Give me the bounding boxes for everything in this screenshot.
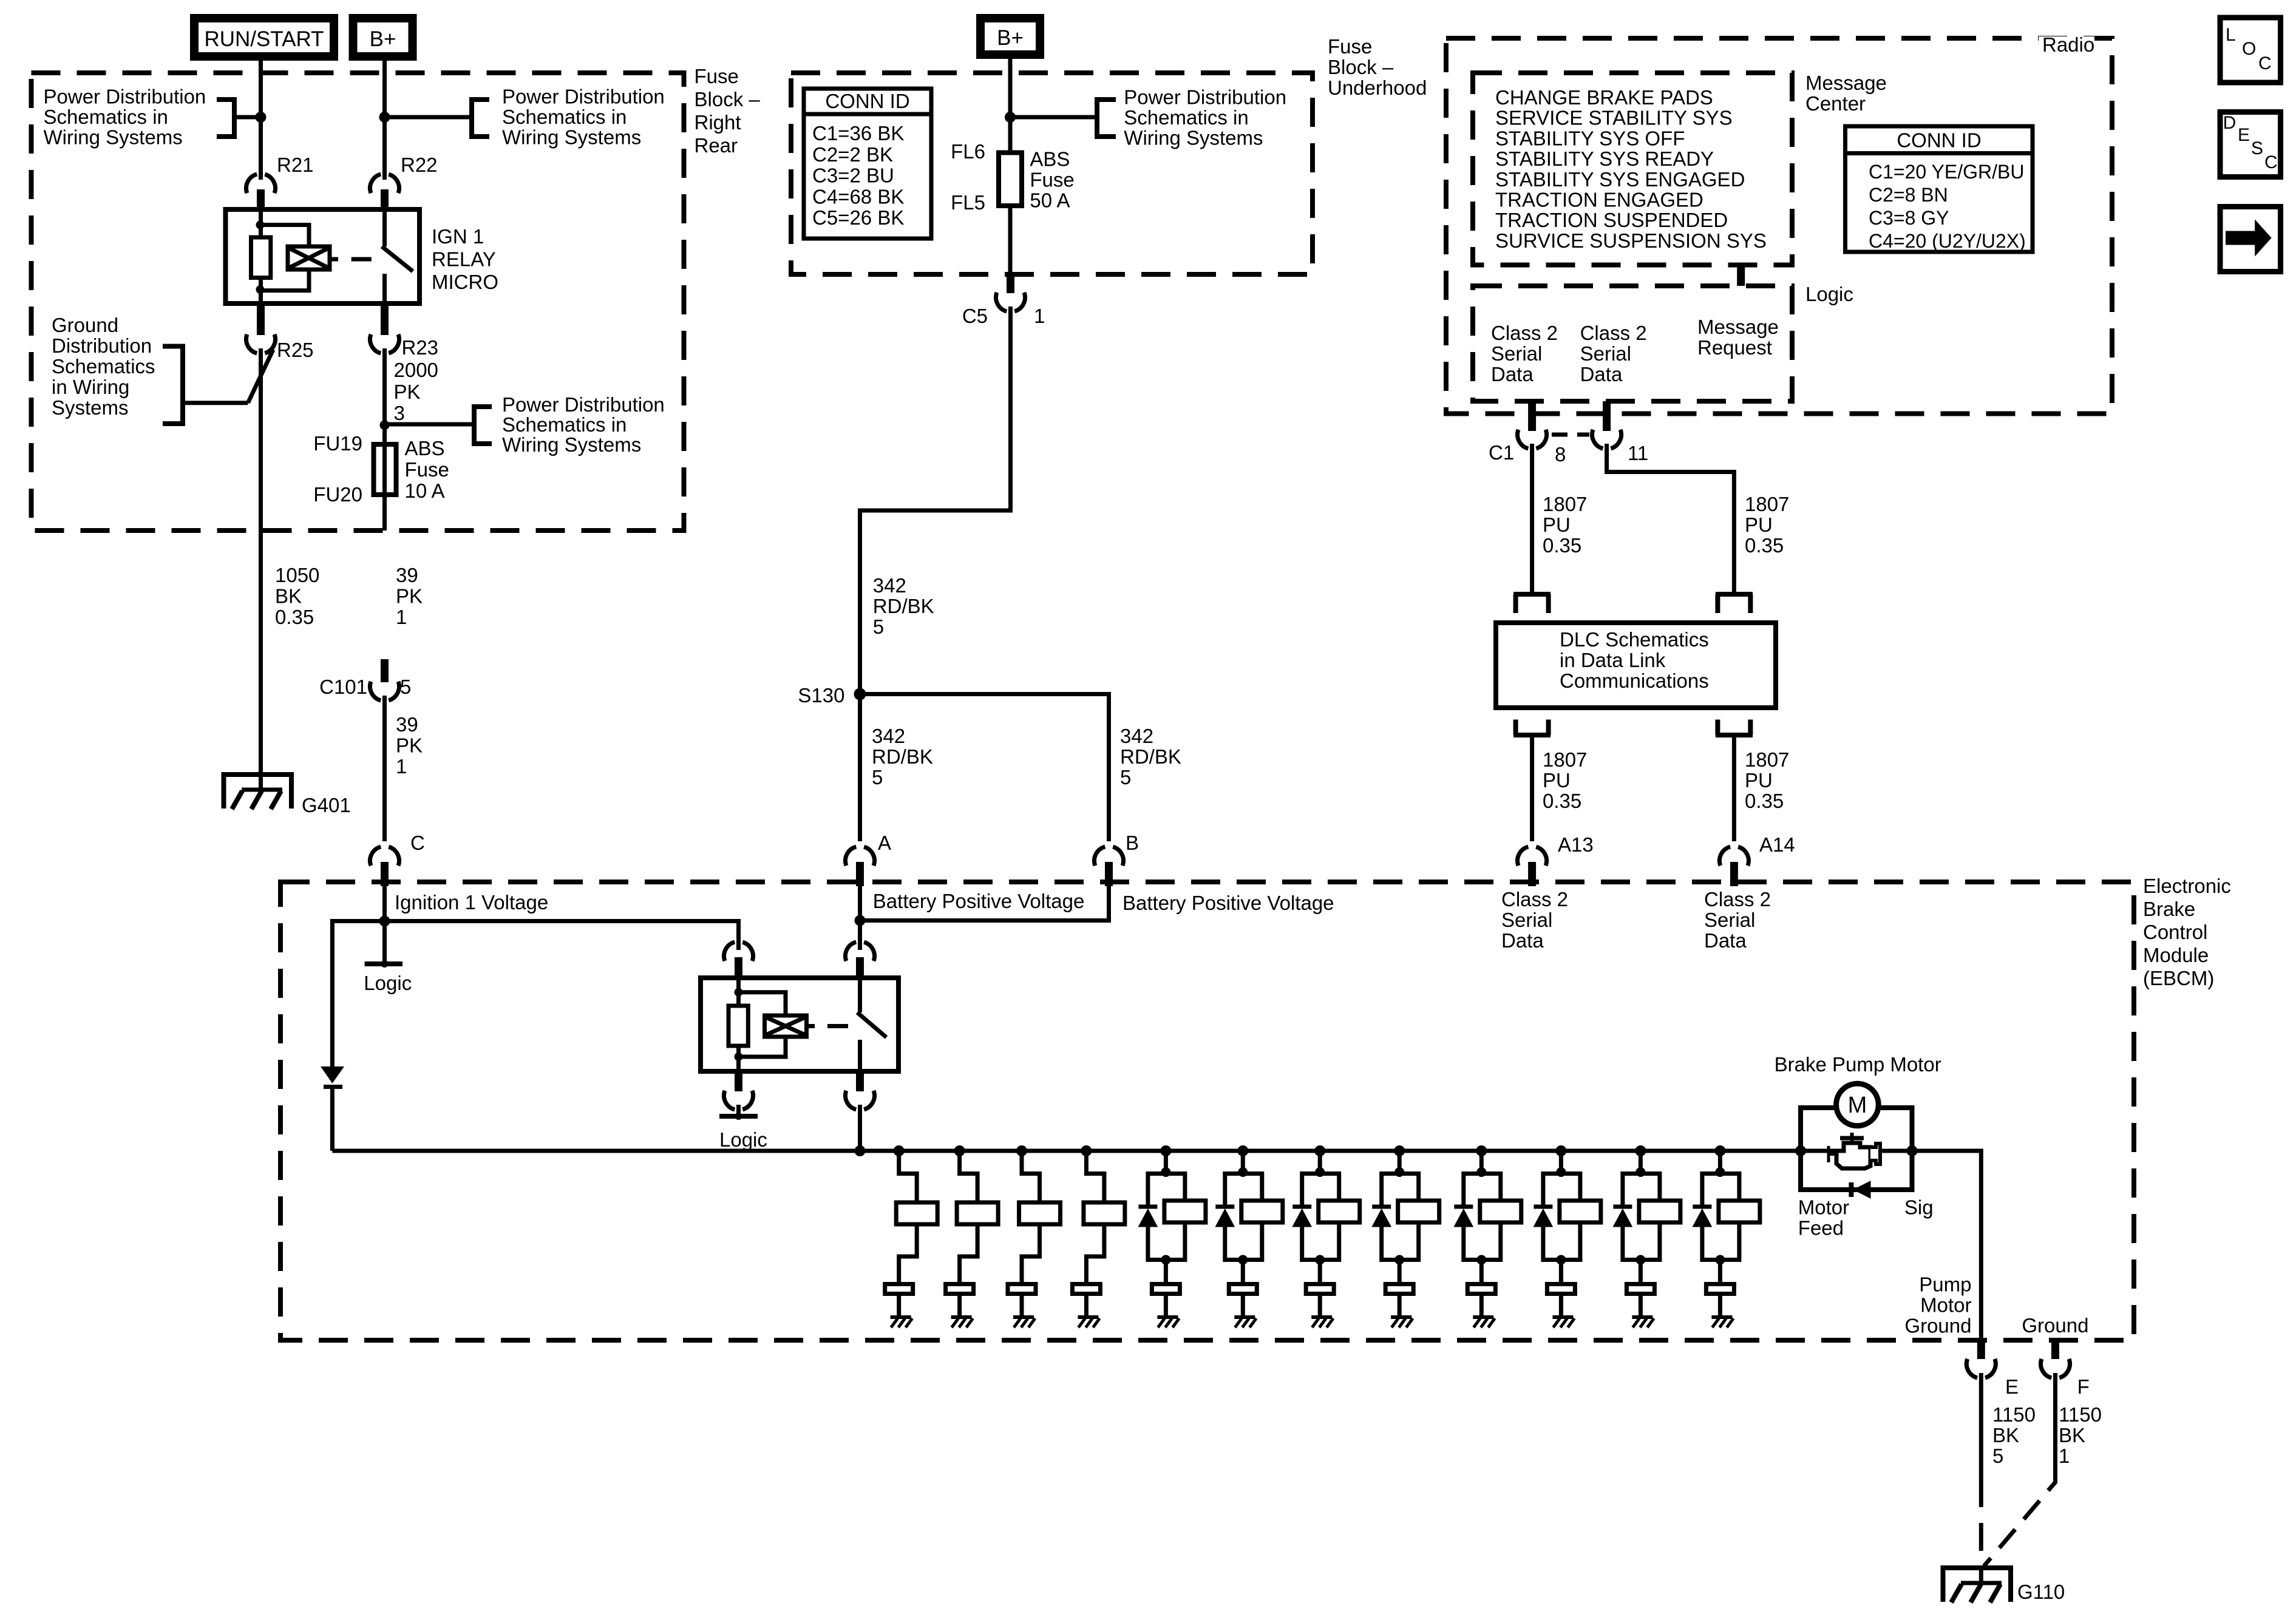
stub Message Request link [1737,265,1745,286]
svg-text:FU20: FU20 [313,483,362,506]
node branch 7 split top [1315,1167,1325,1177]
wire branch 10 diode leg [1543,1174,1561,1206]
wire relay2 coil top [736,978,741,1006]
node bus tap 5 [1160,1145,1171,1156]
svg-text:FL5: FL5 [951,191,985,214]
node branch 9 split top [1476,1167,1486,1177]
wire coil 4 to valve [1086,1224,1104,1282]
wire branch 12 coil leg [1720,1174,1739,1201]
solenoid coil 10 [1560,1201,1601,1222]
valve plate 11 [1626,1284,1654,1294]
svg-text:Power Distribution: Power Distribution [44,86,206,108]
svg-text:B+: B+ [370,27,396,51]
svg-text:39: 39 [396,713,418,736]
ground solenoid 3 [1013,1315,1034,1319]
svg-text:Serial: Serial [1704,909,1755,931]
wire branch 8 diode leg [1382,1174,1400,1206]
svg-text:Module: Module [2143,944,2209,966]
solenoid coil 1 [896,1202,937,1224]
svg-text:Fuse: Fuse [695,65,739,87]
svg-text:Fuse: Fuse [1328,35,1372,58]
node branch 8 split bottom [1394,1255,1404,1265]
wire ignition rail to suppression diode [332,921,384,1068]
ground solenoid 4 [1078,1315,1098,1319]
svg-text:C3=8 GY: C3=8 GY [1869,207,1949,229]
svg-text:B+: B+ [997,26,1024,50]
valve plate 5 [1152,1284,1180,1294]
valve plate 8 [1385,1284,1413,1294]
ground solenoid 1 [891,1315,911,1319]
node motor feed [1795,1145,1806,1156]
solenoid coil 5 [1164,1201,1206,1222]
svg-text:E: E [2005,1375,2019,1398]
svg-text:Wiring Systems: Wiring Systems [1124,127,1263,149]
wire coil 8 return [1399,1222,1419,1260]
svg-text:C101: C101 [319,676,367,698]
ground G401 [224,775,292,808]
svg-text:Class 2: Class 2 [1704,888,1771,910]
svg-text:Schematics in: Schematics in [1124,106,1248,129]
wire valve 4 to ground [1084,1294,1089,1317]
wire branch 12 drop [1718,1151,1722,1174]
resistor relay coil resistance [251,237,271,278]
svg-text:C4=68 BK: C4=68 BK [812,185,904,208]
motor diode (arrow left) [1853,1181,1870,1198]
svg-text:39: 39 [396,564,418,586]
wire winding stub 2 [807,1024,815,1028]
dashed box Fuse Block - Underhood [791,73,1313,274]
wire valve 1 to ground [897,1294,901,1317]
switch relay blade [382,246,413,271]
power feed box RUN/START [194,18,334,56]
svg-text:Feed: Feed [1798,1216,1844,1239]
wire valve 2 to ground [957,1294,962,1317]
svg-text:1: 1 [396,755,407,778]
wire R23 to fuse FU19 [382,348,387,531]
svg-text:1050: 1050 [275,564,319,586]
svg-text:(EBCM): (EBCM) [2143,967,2214,989]
wire diode 12 return [1702,1227,1720,1260]
wire relay2 switch fixed contact [858,978,862,1012]
wire branch 2 to coil [960,1151,978,1202]
svg-text:RD/BK: RD/BK [872,745,933,768]
valve plate 7 [1306,1284,1334,1294]
wire 1050 BK to G401 [259,348,263,791]
node branch 5 split bottom [1161,1255,1170,1265]
solenoid coil 2 [957,1202,998,1224]
wire battery rail B to A [860,886,1109,921]
svg-text:CONN ID: CONN ID [825,90,909,112]
wire branch 11 to valve [1639,1260,1643,1283]
svg-text:1: 1 [1034,305,1045,327]
relay2 winding (box with X) [765,1015,807,1037]
node bus tap 6 [1237,1145,1248,1156]
arrow glyph [2226,220,2272,257]
power feed box B+ (left) [353,18,413,56]
wire pump motor ground [1912,1151,1982,1340]
svg-text:342: 342 [873,574,906,597]
pin stub relay switch [856,957,864,978]
dashed box Fuse Block - Right Rear [32,73,684,531]
svg-text:D: D [2223,113,2237,133]
node ignition rail [379,916,390,927]
diode 10 cathode bar [1533,1205,1552,1209]
svg-text:0.35: 0.35 [1543,534,1581,557]
svg-text:Ground: Ground [1904,1314,1971,1337]
wire branch 3 to coil [1022,1151,1040,1202]
solenoid coil 4 [1084,1202,1125,1224]
svg-text:Wiring Systems: Wiring Systems [502,433,641,456]
svg-text:Fuse: Fuse [405,458,449,481]
connector pin C at EBCM [370,846,399,866]
svg-text:MICRO: MICRO [432,271,498,293]
dashed box Message Center [1473,73,1792,265]
svg-text:Sig: Sig [1904,1196,1934,1218]
connector C1 pin 8 [1518,430,1547,449]
wire relay switch output [382,274,387,303]
pin stub radio pin 8 [1528,401,1536,431]
wire valve 12 to ground [1718,1294,1722,1317]
svg-text:C5: C5 [962,305,988,327]
wire valve 5 to ground [1164,1294,1168,1317]
svg-text:B: B [1126,832,1139,854]
diode 11 cathode bar [1613,1205,1632,1209]
svg-text:STABILITY SYS READY: STABILITY SYS READY [1495,147,1714,170]
node bus tap 9 [1476,1145,1487,1156]
node bus tap 8 [1394,1145,1405,1156]
svg-text:1: 1 [396,606,407,628]
fuse ABS Fuse 10 A (FU19/FU20) [374,444,396,495]
pin stub relay2 coil low [735,1071,742,1091]
wire relay switch fixed contact [382,209,387,246]
pin stub radio pin 11 [1603,401,1611,431]
node branch 10 split bottom [1556,1255,1566,1265]
wire dash link coil to switch 2 [827,1024,848,1028]
wire 1807 PU DLC to A14 [1732,735,1736,841]
wire FL5 to C5 [1008,206,1013,274]
wire ground distribution diagonal to R25 [248,350,273,403]
reference bracket Power Distribution (right) [472,100,489,137]
wire relay coil top [259,209,263,237]
svg-text:Battery Positive Voltage: Battery Positive Voltage [1123,892,1334,914]
wire branch 12 to valve [1718,1260,1722,1283]
wire branch 10 coil leg [1561,1174,1580,1201]
node branch 11 split top [1635,1167,1645,1177]
svg-text:Block –: Block – [1328,56,1394,78]
svg-text:PU: PU [1543,514,1571,536]
ground G110 [1943,1568,2011,1602]
ground solenoid 6 [1234,1315,1255,1319]
wire relay2 coil bottom [736,1046,741,1071]
wire branch 11 diode leg [1623,1174,1641,1206]
svg-text:50 A: 50 A [1030,189,1070,212]
wire diode 5 return [1148,1227,1166,1260]
valve plate 9 [1467,1284,1495,1294]
diode 5 cathode bar [1138,1205,1157,1209]
svg-text:Schematics in: Schematics in [502,106,627,128]
node battery rail [855,915,866,926]
node S-point at FU19 feed [380,420,390,430]
svg-text:Rear: Rear [695,134,738,157]
ground solenoid 8 [1391,1315,1411,1319]
wire solenoid supply bus [332,1149,1801,1153]
node branch 7 split bottom [1315,1255,1325,1265]
node junction RUN/START rail [256,112,267,123]
svg-text:1: 1 [2059,1445,2070,1467]
wire diode 8 return [1382,1227,1400,1260]
svg-text:8: 8 [1555,443,1566,466]
wire ignition 1 voltage feed [382,886,387,964]
wire coil 10 return [1561,1222,1580,1260]
wire battery positive feed A [858,886,862,950]
svg-text:PU: PU [1745,514,1773,536]
svg-text:Data: Data [1501,929,1544,952]
wire ground distribution lead [183,401,248,405]
node branch 8 split top [1394,1167,1404,1177]
svg-text:Schematics in: Schematics in [502,413,627,436]
svg-text:Data: Data [1491,363,1533,385]
connector pin B at EBCM [1095,846,1124,866]
wire diode 6 return [1225,1227,1243,1260]
svg-text:STABILITY SYS OFF: STABILITY SYS OFF [1495,127,1685,149]
DLC bottom pin bracket (A13 path) [1513,720,1550,736]
node branch 9 split bottom [1476,1255,1486,1265]
wire coil 1 to valve [899,1224,917,1282]
diode 9 cathode bar [1454,1205,1473,1209]
svg-text:0.35: 0.35 [1543,790,1581,812]
svg-text:S130: S130 [798,684,844,707]
wire branch 6 to valve [1241,1260,1245,1283]
svg-text:A: A [878,832,891,854]
wire branch 7 diode leg [1302,1174,1320,1206]
wire relay2 to solenoid bus [858,1105,862,1151]
pin stub relay coil [735,957,742,978]
svg-text:in Wiring: in Wiring [52,376,129,398]
svg-text:E: E [2238,125,2250,145]
svg-text:3: 3 [394,402,405,424]
svg-text:342: 342 [872,725,905,747]
svg-text:0.35: 0.35 [1745,534,1784,557]
node branch 12 split bottom [1715,1255,1725,1265]
wire branch 4 to coil [1086,1151,1104,1202]
svg-text:Logic: Logic [364,972,412,994]
svg-text:Class 2: Class 2 [1580,322,1647,344]
svg-text:1807: 1807 [1543,748,1587,771]
svg-text:Communications: Communications [1560,670,1709,692]
node branch 6 split top [1238,1167,1248,1177]
node relay coil bottom [256,285,265,294]
wire valve 9 to ground [1479,1294,1484,1317]
dashed box Radio [1446,38,2112,414]
node branch 5 split top [1161,1167,1170,1177]
svg-text:F: F [2077,1375,2090,1398]
pin stub A14 through EBCM border [1730,862,1738,886]
dashed link connector C1 halves [1552,433,1589,437]
reference bracket Power Distribution (fuse) [474,407,492,444]
svg-text:FU19: FU19 [313,432,362,455]
svg-text:Request: Request [1697,336,1772,359]
wire branch 8 to valve [1398,1260,1402,1283]
solenoid coil 6 [1241,1201,1283,1222]
svg-text:PK: PK [396,734,423,757]
svg-text:Logic: Logic [1805,283,1853,305]
svg-text:Ground: Ground [2022,1314,2088,1337]
valve plate 12 [1706,1284,1734,1294]
diode 9 (arrow up) [1454,1209,1473,1227]
diode cathode bar [324,1085,342,1089]
node branch 6 split bottom [1238,1255,1248,1265]
ground solenoid 12 [1711,1315,1732,1319]
svg-text:Schematics: Schematics [52,355,155,378]
DLC top pin bracket (A13 path) [1513,594,1550,613]
wire branch 10 drop [1559,1151,1563,1174]
svg-text:in Data Link: in Data Link [1560,649,1666,671]
wire branch 6 coil leg [1243,1174,1262,1201]
valve plate 4 [1072,1284,1100,1294]
connector ID table (radio) [1846,126,2033,252]
wire 1807 PU radio pin 8 to DLC [1530,444,1534,594]
pin stub F [2051,1340,2059,1359]
wire 1150 BK E dashed to G110 [1979,1479,1983,1584]
svg-text:C2=2 BK: C2=2 BK [812,143,893,166]
wire branch 9 diode leg [1464,1174,1482,1206]
node bus tap 4 [1081,1145,1092,1156]
svg-text:Pump: Pump [1919,1273,1971,1295]
wire coil 7 return [1320,1222,1339,1260]
svg-text:BK: BK [1992,1424,2019,1446]
motor M circle [1836,1083,1879,1126]
svg-text:Motor: Motor [1920,1293,1971,1316]
svg-text:5: 5 [400,676,411,698]
terminal bar Logic (ignition) [365,961,402,966]
DLC bottom pin bracket (A14 path) [1716,720,1753,736]
svg-text:Brake Pump Motor: Brake Pump Motor [1775,1053,1941,1076]
wire 342 RD/BK from C5 to S130 [860,307,1011,841]
solenoid coil 12 [1719,1201,1760,1222]
pin stub A13 through EBCM border [1528,862,1536,886]
svg-text:CHANGE BRAKE PADS: CHANGE BRAKE PADS [1495,86,1713,109]
diode 11 (arrow up) [1613,1209,1632,1227]
wire branch 9 coil leg [1481,1174,1501,1201]
wire diode 7 return [1302,1227,1320,1260]
svg-text:C: C [2258,53,2272,73]
wire RUN/START feed to R21 [259,56,263,180]
wire relay coil bottom [259,278,263,304]
svg-text:ABS: ABS [1030,148,1070,171]
wire dash link coil to switch [352,257,372,262]
svg-text:Data: Data [1704,929,1747,952]
node logic tap 2 [735,1113,742,1120]
wire coil 11 return [1640,1222,1660,1260]
wire coil 9 return [1481,1222,1501,1260]
solenoid coil 11 [1639,1201,1680,1222]
reference bracket Ground Distribution [163,347,183,424]
svg-text:0.35: 0.35 [1745,790,1784,812]
svg-text:Center: Center [1805,92,1866,115]
svg-text:11: 11 [1628,442,1648,464]
svg-text:ABS: ABS [405,437,445,459]
wire relay winding loop [260,225,310,291]
wire branch 5 drop [1164,1151,1168,1174]
svg-text:Block –: Block – [695,88,761,110]
resistor relay2 coil resistance [729,1006,748,1046]
fuse ABS Fuse 50 A (FL6/FL5) [999,153,1022,206]
svg-text:BK: BK [2059,1424,2085,1446]
svg-text:1150: 1150 [2059,1403,2102,1426]
wire 1807 PU DLC to A13 [1530,735,1534,841]
svg-text:Ground: Ground [52,314,118,336]
diode 5 (arrow up) [1138,1209,1157,1227]
diode 8 (arrow up) [1372,1209,1391,1227]
svg-text:S: S [2251,138,2263,158]
svg-text:Serial: Serial [1491,342,1542,365]
wire branch 12 diode leg [1702,1174,1720,1206]
tab box arrow [2220,207,2281,272]
svg-text:R23: R23 [402,336,439,359]
svg-text:Wiring Systems: Wiring Systems [502,126,641,149]
svg-text:Wiring Systems: Wiring Systems [44,126,183,149]
node bus tap 7 [1314,1145,1325,1156]
solenoid coil 8 [1398,1201,1439,1222]
connector C5 pin 1 [996,293,1025,312]
valve plate 3 [1008,1284,1036,1294]
svg-text:PU: PU [1745,769,1773,792]
svg-text:C5=26 BK: C5=26 BK [812,206,904,229]
connector relay switch pin (internal) [846,941,875,961]
svg-text:RELAY: RELAY [432,248,496,271]
wire branch 7 to valve [1318,1260,1322,1283]
solenoid coil 9 [1480,1201,1521,1222]
connector relay2 coil low pin [724,1091,753,1110]
pin stub B through EBCM border [1105,862,1113,886]
engine icon (pump) [1836,1143,1870,1168]
wire 1807 PU radio pin 11 to DLC [1607,444,1734,594]
wire 1150 BK E [1979,1373,1983,1479]
svg-text:C1: C1 [1489,441,1514,464]
wire diode 11 return [1623,1227,1641,1260]
svg-text:Underhood: Underhood [1328,76,1427,99]
svg-text:1807: 1807 [1543,493,1587,515]
wire valve 7 to ground [1318,1294,1322,1317]
svg-text:FL6: FL6 [951,140,985,163]
connector pin R21 [246,174,276,193]
node relay2 coil bottom [735,1053,743,1061]
diode 8 cathode bar [1372,1205,1391,1209]
diode 10 (arrow up) [1533,1209,1552,1227]
diode 12 (arrow up) [1693,1209,1711,1227]
wire ignition rail to EBCM relay coil [385,921,739,951]
svg-text:Serial: Serial [1580,342,1631,365]
pin stub R23 [381,303,389,335]
wire coil 3 to valve [1022,1224,1040,1282]
pin stub C5 [1007,274,1014,293]
dashed box Electronic Brake Control Module (EBCM) [280,882,2134,1340]
svg-text:C4=20 (U2Y/U2X): C4=20 (U2Y/U2X) [1869,230,2026,252]
reference bracket Power Distribution (underhood) [1097,100,1116,137]
wire diode 9 return [1464,1227,1482,1260]
svg-text:1807: 1807 [1745,493,1789,515]
switch relay2 blade [857,1012,886,1037]
motor loop outline [1801,1108,1912,1190]
diode 6 (arrow up) [1215,1209,1234,1227]
svg-text:RUN/START: RUN/START [204,27,324,51]
pin stub R21 into relay [257,189,265,209]
svg-text:C2=8 BN: C2=8 BN [1869,184,1948,206]
svg-text:Battery Positive Voltage: Battery Positive Voltage [873,890,1085,912]
relay box EBCM pump motor relay [701,978,898,1071]
svg-text:Distribution: Distribution [52,334,152,357]
diode 7 cathode bar [1292,1205,1311,1209]
